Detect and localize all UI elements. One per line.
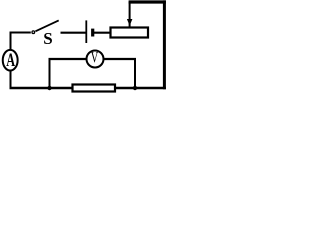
wire bottom right segment [116,87,166,89]
svg-text:S: S [43,29,52,48]
wire ammeter to bottom [10,70,12,89]
wire switch to battery [61,32,86,34]
svg-text:V: V [91,49,99,67]
battery short thick plate [91,29,94,37]
switch S pivot circle [32,31,35,34]
rheostat R body [111,28,149,38]
wire top [129,0,166,3]
junction dot left [47,86,51,90]
switch S lever [35,20,58,31]
voltmeter V body [87,51,104,68]
wire left vertical corner to ammeter [10,32,12,51]
junction dot right [133,86,137,90]
rheostat wiper arrowhead [127,19,132,26]
wire right vertical [163,0,166,89]
resistor body [73,85,116,92]
ammeter A body [3,50,18,71]
wire bottom left segment [10,87,73,89]
wire top-left horizontal [10,32,31,34]
voltmeter branch left horizontal [49,58,87,60]
wire battery to rheostat [94,32,111,34]
voltmeter branch right vertical [134,58,136,88]
voltmeter branch left vertical [49,58,51,88]
battery long plate [85,20,87,43]
svg-text:A: A [6,51,15,71]
rheostat wiper stem [129,2,131,27]
voltmeter branch right horizontal [103,58,136,60]
